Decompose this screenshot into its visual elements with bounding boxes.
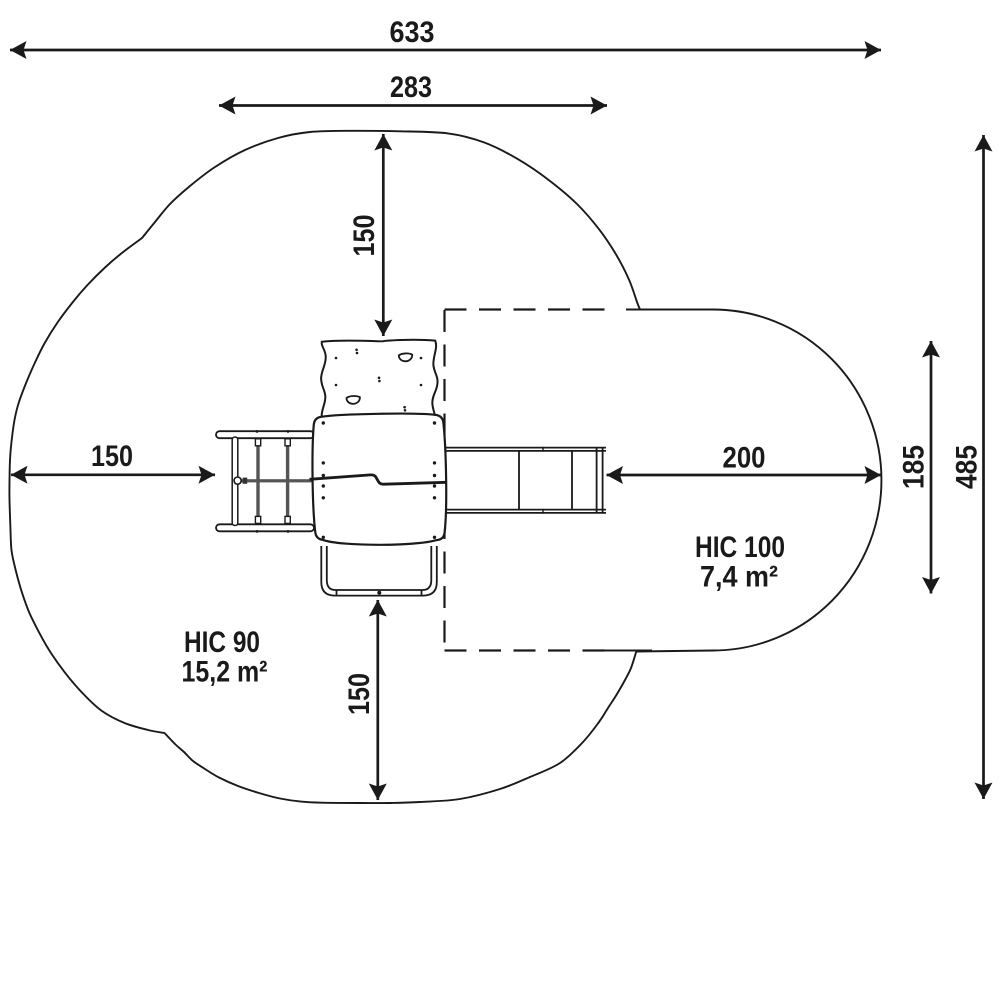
dimension 485 bbox=[951, 135, 993, 799]
svg-text:HIC 90: HIC 90 bbox=[184, 626, 260, 659]
dashed HIC 100 zone boundary: bottom bbox=[445, 649, 615, 651]
dashed HIC 100 zone boundary: left vertical bbox=[443, 310, 445, 650]
ladder left side tube bbox=[232, 437, 238, 526]
svg-text:7,4 m²: 7,4 m² bbox=[700, 561, 778, 594]
climbing hold 2 bbox=[347, 396, 360, 404]
climbing hold 1 bbox=[399, 353, 412, 361]
safety zone silhouette (HIC 90 cloud + HIC 100 rounded zone) bbox=[9, 131, 881, 803]
ladder rung 1 (grey) bbox=[256, 440, 259, 522]
dimension 150 (bottom vertical) bbox=[343, 600, 387, 800]
dimension 283 bbox=[219, 71, 607, 115]
ladder bottom rail bbox=[216, 524, 314, 531]
svg-text:633: 633 bbox=[390, 16, 435, 49]
platform split line bbox=[310, 475, 447, 484]
ladder bar end ball bbox=[234, 477, 241, 484]
svg-text:185: 185 bbox=[898, 445, 931, 489]
svg-text:HIC 100: HIC 100 bbox=[695, 531, 785, 564]
wall screw dots bbox=[335, 349, 423, 412]
central platform bbox=[312, 414, 446, 545]
svg-text:150: 150 bbox=[348, 215, 381, 257]
label HIC 90 / 15,2 m2 bbox=[182, 626, 268, 689]
dimension 150 (left) bbox=[11, 440, 215, 484]
svg-text:15,2 m²: 15,2 m² bbox=[182, 656, 268, 689]
climbing wall (wavy panel above platform) bbox=[321, 340, 437, 418]
ladder horizontal grey bar bbox=[238, 479, 313, 482]
svg-text:485: 485 bbox=[951, 445, 984, 489]
dimension 633 (top) bbox=[10, 16, 881, 59]
slide (top view, right of platform) bbox=[443, 447, 606, 515]
dimension 185 bbox=[898, 341, 941, 594]
dimension 200 (right) bbox=[607, 442, 882, 485]
label HIC 100 / 7,4 m2 bbox=[695, 531, 785, 594]
ladder / climbing frame (left of platform) bbox=[216, 430, 314, 533]
ladder rung 2 (grey) bbox=[286, 440, 289, 522]
svg-text:283: 283 bbox=[390, 71, 432, 104]
svg-text:150: 150 bbox=[343, 673, 376, 715]
solid stub where zone top edge exits cloud bbox=[626, 308, 645, 310]
svg-text:200: 200 bbox=[723, 442, 766, 475]
bench / crawl tube under platform bbox=[321, 546, 437, 596]
dashed HIC 100 zone boundary: top bbox=[445, 308, 611, 310]
svg-text:150: 150 bbox=[91, 440, 133, 473]
solid stub where zone bottom edge exits cloud bbox=[604, 649, 652, 651]
platform screw dots bbox=[322, 421, 437, 539]
dimension 150 (top vertical) bbox=[348, 134, 392, 336]
ladder top rail bbox=[216, 431, 314, 438]
rail screw dots bbox=[256, 430, 259, 433]
